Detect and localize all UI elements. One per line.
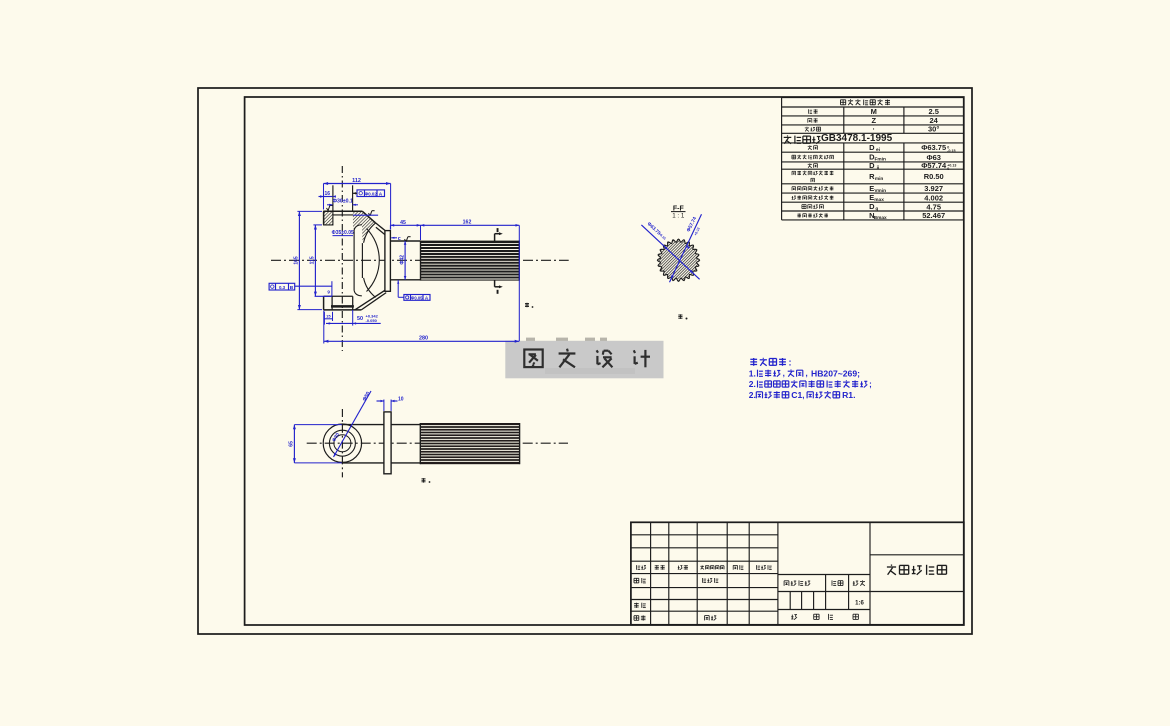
- spline parameter table: [782, 97, 964, 99]
- svg-text:4.75: 4.75: [926, 202, 941, 211]
- svg-text:52.467: 52.467: [922, 211, 945, 220]
- svg-text:C1: C1: [791, 390, 802, 400]
- svg-text:0.3: 0.3: [279, 285, 286, 290]
- svg-text:Φ0.02: Φ0.02: [365, 191, 378, 196]
- bottom view: yoke circles: [323, 424, 361, 462]
- inner drawing frame: [245, 97, 964, 625]
- title block row labels: [636, 565, 638, 570]
- svg-text:D: D: [869, 161, 875, 170]
- svg-text:-0.050: -0.050: [366, 318, 378, 323]
- svg-text:9: 9: [327, 290, 330, 295]
- part: ball groove big arc: [367, 229, 380, 292]
- svg-text:Φ63.75: Φ63.75: [921, 143, 946, 152]
- svg-text:-0.15: -0.15: [947, 149, 955, 153]
- part: top cone band: [376, 223, 385, 231]
- part: top chamfer: [362, 211, 375, 223]
- watermark grey box 图文设计: [505, 341, 663, 379]
- bottom view: centerline vertical: [341, 409, 343, 477]
- F-F dim line Φ63.75: [641, 225, 699, 279]
- svg-text:Φ42: Φ42: [399, 255, 405, 265]
- svg-text:B: B: [290, 285, 294, 291]
- part: bottom diagonal inner: [361, 293, 386, 310]
- svg-text:2.: 2.: [749, 390, 756, 400]
- dim 165 vertical: [298, 211, 300, 309]
- bottom view: dim 65: [293, 425, 295, 463]
- svg-text:280: 280: [419, 335, 428, 341]
- 共张第张: [791, 615, 793, 619]
- top view: centerline vertical: [341, 166, 343, 351]
- svg-text:4.002: 4.002: [924, 193, 943, 202]
- svg-text:GB3478.1-1995: GB3478.1-1995: [821, 133, 893, 144]
- bottom view: spline (stripes): [420, 423, 519, 464]
- svg-text:16: 16: [325, 191, 331, 197]
- svg-text:ii: ii: [877, 165, 880, 171]
- blue line near hatch: [353, 214, 378, 216]
- part: cavity corner arc bottom: [354, 291, 362, 296]
- bottom view: leader Φ50 Φ30: [334, 391, 372, 457]
- svg-text::: :: [789, 357, 792, 367]
- svg-text:2.: 2.: [749, 379, 756, 389]
- svg-text:c: c: [398, 236, 401, 242]
- ghost mark F-F: [678, 314, 682, 316]
- technical requirements text: [750, 358, 757, 360]
- part: cavity corner arc top: [354, 225, 362, 230]
- svg-text:3.927: 3.927: [924, 184, 943, 193]
- svg-text:Φ30±0.1: Φ30±0.1: [333, 198, 353, 204]
- svg-text:M: M: [871, 107, 877, 116]
- part name 传动轴花键: [891, 565, 893, 566]
- svg-text:D: D: [869, 202, 875, 211]
- watermark ghost marks above box: [526, 338, 535, 341]
- svg-text:D: D: [869, 143, 875, 152]
- GDT frame bottom: [404, 295, 430, 301]
- title block: [631, 522, 964, 625]
- svg-text:1:6: 1:6: [855, 601, 864, 607]
- shaft neck: [390, 240, 420, 242]
- part: top inner line: [333, 214, 353, 216]
- svg-text:HB207~269;: HB207~269;: [811, 368, 860, 378]
- part: funnel arc bottom: [364, 278, 376, 298]
- GDT frame top: [357, 190, 385, 197]
- F-F cutting plane marks: [497, 228, 499, 232]
- svg-text:10: 10: [398, 396, 404, 402]
- svg-text:15: 15: [326, 313, 331, 318]
- part: bottom outer edge: [324, 309, 362, 311]
- svg-text:0: 0: [947, 167, 949, 171]
- dim 16: [319, 196, 333, 198]
- svg-text:2.5: 2.5: [928, 107, 938, 116]
- dim 9 small: [331, 281, 333, 296]
- GDT frame left: [269, 283, 295, 290]
- svg-text:g: g: [875, 207, 878, 212]
- svg-text:30°: 30°: [928, 125, 939, 134]
- dim 112: [324, 183, 391, 185]
- svg-text:Vmin: Vmin: [874, 188, 886, 194]
- svg-text:112: 112: [352, 178, 361, 184]
- row 齿根圆弧最小曲率半径: [792, 170, 796, 172]
- roughness symbol near shaft: [405, 237, 411, 242]
- svg-text:162: 162: [463, 220, 472, 226]
- 精度等级 GB3478.1-1995 row: [787, 135, 789, 136]
- title block middle section: [778, 574, 870, 576]
- bottom view: centerline horizontal: [307, 442, 568, 444]
- svg-text:min: min: [875, 176, 884, 182]
- part: flange plate: [385, 231, 391, 292]
- svg-text:,: ,: [802, 391, 804, 400]
- bottom view: dim 10 (flange): [383, 400, 385, 411]
- svg-text:Φ0.05: Φ0.05: [411, 295, 423, 300]
- svg-text:45: 45: [400, 220, 406, 226]
- bottom view: body edges: [342, 424, 421, 426]
- spline shaft (section stripes): [421, 241, 520, 281]
- top view: centerline horizontal: [271, 259, 569, 261]
- dim 115 vertical: [314, 225, 316, 296]
- dim 45 and 162: [390, 224, 519, 226]
- roughness symbol on chamfer: [369, 211, 375, 216]
- svg-text:,: ,: [806, 369, 808, 378]
- svg-text:115: 115: [310, 256, 316, 264]
- svg-text:R0.50: R0.50: [924, 172, 944, 181]
- part: groove neck vertical: [361, 243, 363, 278]
- bottom view: flange: [384, 412, 391, 474]
- svg-text:1.: 1.: [749, 368, 756, 378]
- svg-text:max: max: [874, 198, 884, 203]
- dim 280: [324, 340, 520, 342]
- svg-text:ei: ei: [876, 147, 880, 153]
- svg-text:1 : 1: 1 : 1: [672, 213, 685, 220]
- svg-text:50: 50: [357, 316, 363, 322]
- svg-text:Z: Z: [872, 116, 877, 125]
- svg-text:65: 65: [289, 441, 295, 447]
- outer drawing frame: [198, 88, 972, 634]
- svg-text:A: A: [379, 192, 383, 198]
- part: top ear (hatched): [324, 211, 333, 225]
- part: bottom ear block: [324, 295, 353, 297]
- table header 渐开线花键参数: [841, 99, 846, 101]
- part: bottom diagonal outer: [355, 290, 385, 310]
- dim 50 +0.342: [326, 322, 381, 324]
- title block right section lines: [870, 554, 964, 556]
- part: cavity opening vertical: [353, 230, 355, 290]
- roughness symbol on ear: [327, 206, 333, 211]
- svg-text:R1.: R1.: [842, 390, 855, 400]
- ghost mark top view: [525, 303, 529, 305]
- svg-text:165: 165: [294, 256, 300, 265]
- svg-text:;: ;: [869, 380, 872, 389]
- 阶段标记 重量 比例: [784, 580, 789, 582]
- svg-text:Φ35±0.05: Φ35±0.05: [332, 230, 354, 236]
- svg-text:24: 24: [930, 116, 939, 125]
- dim Φ42 vertical: [404, 241, 406, 280]
- part: top outer edge: [324, 210, 363, 212]
- F-F dim line Φ57.74: [670, 214, 702, 282]
- part: left ear edge top: [323, 211, 325, 225]
- dim 15 small bracket: [324, 318, 332, 320]
- part: funnel arc top: [364, 223, 376, 243]
- part: bore walls above: [332, 185, 334, 211]
- svg-text:Φ57.74: Φ57.74: [921, 161, 947, 170]
- ghost mark bottom view: [422, 478, 426, 480]
- svg-text:,: ,: [783, 369, 785, 378]
- svg-text:Bmax: Bmax: [874, 215, 887, 221]
- part: hatched wedge (section): [353, 211, 376, 243]
- dim Φ35 (inner): [333, 235, 354, 237]
- chamfer label c: [391, 237, 397, 239]
- svg-text:Fmin: Fmin: [874, 157, 886, 163]
- F-F scalloped spline section: [657, 239, 699, 281]
